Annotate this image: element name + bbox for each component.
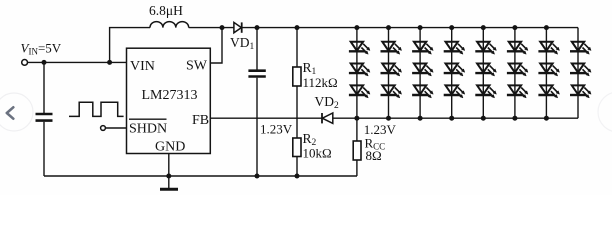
LED D3a (412, 42, 433, 55)
LED D5b (475, 64, 496, 77)
LED D1b (349, 64, 370, 77)
LED D6b (507, 64, 528, 77)
node col4 bottom (449, 116, 454, 121)
node col2 bottom (386, 116, 391, 121)
node col2 top (386, 25, 391, 30)
node R1 top (295, 25, 300, 30)
wire SW stub (210, 28, 222, 63)
wire R2 lower (296, 157, 298, 177)
resistor R2 (293, 138, 301, 157)
LED D8c (570, 85, 591, 98)
inductor L1 6.8uH (150, 22, 189, 28)
wire VD1 to C2 node (242, 27, 297, 29)
node col7 top (544, 25, 549, 30)
node SW junction (220, 25, 225, 30)
ground rail (44, 175, 357, 177)
wire VD2 to node (333, 117, 357, 119)
node col1 top (354, 25, 359, 30)
svg-text:VIN: VIN (130, 59, 155, 74)
node col6 top (512, 25, 517, 30)
node C2 top (255, 25, 260, 30)
LED column 4 wire (451, 28, 453, 119)
wire riser to top rail (110, 28, 150, 63)
diode VD2 (322, 113, 333, 123)
svg-text:GND: GND (155, 140, 185, 155)
svg-text:1.23V: 1.23V (260, 122, 293, 137)
IC U1 box LM27313 (127, 48, 211, 153)
LED D7b (538, 64, 559, 77)
svg-text:VD1: VD1 (230, 35, 255, 52)
LED D2a (381, 42, 402, 55)
wire R1 to R2 (296, 86, 298, 138)
LED column 2 wire (388, 28, 390, 119)
LED column 7 wire (545, 28, 547, 119)
node C2 bottom (255, 174, 260, 179)
SHDN input circle (101, 126, 106, 131)
wire FB line (210, 117, 322, 119)
svg-text:FB: FB (192, 113, 209, 128)
capacitor C1 (36, 114, 53, 121)
resistor RCC (353, 141, 361, 160)
wire C2 lower (256, 78, 258, 176)
carousel chevron left (7, 107, 14, 118)
node R2 bottom (295, 174, 300, 179)
wire top rail to LEDs (297, 27, 578, 29)
LED column 3 wire (419, 28, 421, 119)
LED D2b (381, 64, 402, 77)
LED D7c (538, 85, 559, 98)
LED D7a (538, 42, 559, 55)
square wave symbol (69, 102, 124, 116)
LED D2c (381, 85, 402, 98)
LED bottom rail (357, 117, 578, 119)
input terminal circle (22, 60, 28, 66)
LED D8a (570, 42, 591, 55)
svg-text:VIN=5V: VIN=5V (21, 41, 62, 57)
node GND (166, 174, 171, 179)
svg-text:8Ω: 8Ω (366, 148, 382, 163)
svg-text:6.8μH: 6.8μH (149, 3, 183, 18)
pin label SHDN with overline (129, 119, 167, 136)
node col5 top (481, 25, 486, 30)
wire C1 lower (43, 122, 45, 176)
svg-text:LM27313: LM27313 (142, 88, 198, 103)
wire RCC upper (356, 118, 358, 141)
LED D5c (475, 85, 496, 98)
wire GND pin (168, 154, 170, 177)
faint carousel circle right (598, 92, 612, 132)
svg-text:10kΩ: 10kΩ (303, 146, 332, 161)
LED D1a (349, 42, 370, 55)
ground symbol (160, 176, 178, 189)
LED column 1 wire (356, 28, 358, 119)
node col3 bottom (418, 116, 423, 121)
svg-text:112kΩ: 112kΩ (303, 75, 338, 90)
LED D1c (349, 85, 370, 98)
LED D4a (444, 42, 465, 55)
capacitor C2 (248, 71, 265, 77)
wire C1 upper (43, 62, 45, 113)
LED column 6 wire (514, 28, 516, 119)
wire inductor to node (189, 27, 234, 29)
node VIN riser (107, 60, 112, 65)
resistor R1 (293, 67, 301, 86)
node col4 top (449, 25, 454, 30)
node col6 bottom (512, 116, 517, 121)
faint carousel circle left (0, 93, 33, 131)
LED column 8 wire (577, 28, 579, 119)
LED D4c (444, 85, 465, 98)
wire C2 upper (256, 28, 258, 70)
wire RCC to ground rail (356, 160, 358, 176)
diode VD1 (234, 22, 242, 32)
node col3 top (418, 25, 423, 30)
LED D6a (507, 42, 528, 55)
svg-text:SW: SW (186, 59, 208, 74)
LED D3c (412, 85, 433, 98)
wire VIN input (28, 61, 127, 63)
node C1 top (42, 60, 47, 65)
LED D3b (412, 64, 433, 77)
wire R1 upper (296, 28, 298, 67)
svg-text:SHDN: SHDN (129, 122, 167, 137)
LED D5a (475, 42, 496, 55)
LED D6c (507, 85, 528, 98)
node col7 bottom (544, 116, 549, 121)
svg-text:VD2: VD2 (315, 94, 340, 111)
LED D8b (570, 64, 591, 77)
LED D4b (444, 64, 465, 77)
node LED rail left (354, 116, 359, 121)
node col5 bottom (481, 116, 486, 121)
LED column 5 wire (482, 28, 484, 119)
wire SHDN stub (106, 127, 127, 129)
